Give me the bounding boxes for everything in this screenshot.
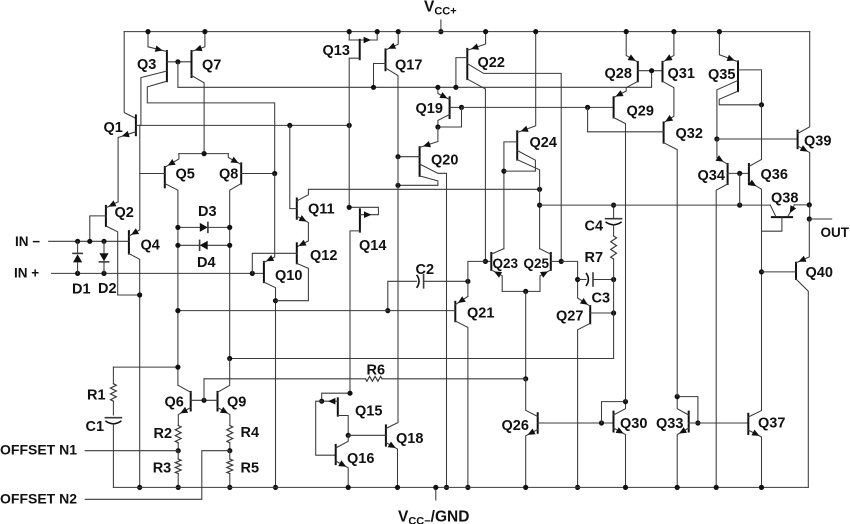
- svg-text:R7: R7: [585, 250, 604, 266]
- transistor Q20: [419, 147, 421, 176]
- Q34 emitter: [717, 139, 728, 164]
- svg-text:Q6: Q6: [165, 394, 184, 410]
- Q2 base wire: [90, 216, 106, 241]
- svg-text:R4: R4: [241, 425, 260, 441]
- wire Q22 collector 2 to Q21 emitter: [468, 261, 486, 296]
- Q23 emitter: [491, 270, 502, 292]
- Q38 base wire: [762, 217, 782, 231]
- Q36 collector: [749, 105, 762, 167]
- Q37 collector: [748, 272, 761, 417]
- base bias wire from Q3/Q7 base: [178, 62, 652, 88]
- transistor Q10: [263, 262, 265, 282]
- Q6 emitter: [178, 408, 190, 426]
- svg-text:Q31: Q31: [668, 66, 695, 82]
- transistor Q3: [166, 51, 168, 81]
- Q12 base wire to IN+: [252, 253, 296, 273]
- transistor Q9: [217, 392, 219, 411]
- Q11 collector wire: [297, 189, 540, 201]
- Q16 emitter: [336, 461, 349, 487]
- svg-text:Q32: Q32: [676, 126, 703, 142]
- svg-text:C4: C4: [585, 218, 604, 234]
- transistor Q14: [359, 209, 361, 231]
- Q8 collector: [230, 184, 242, 359]
- svg-text:Q34: Q34: [698, 168, 725, 184]
- Q2 collector: [106, 226, 140, 295]
- OFFSET N2 wire: [85, 451, 230, 500]
- svg-text:Q22: Q22: [478, 55, 505, 71]
- Q11 base wire: [290, 125, 297, 208]
- Q33 base wire to Q37: [689, 422, 749, 424]
- Q21 collector: [455, 321, 468, 487]
- svg-text:OFFSET N1: OFFSET N1: [0, 442, 77, 458]
- svg-text:Q20: Q20: [431, 152, 458, 168]
- Q1 emitter: [118, 132, 136, 202]
- Q14 emitter loop: [349, 207, 378, 214]
- transistor Q7: [191, 51, 193, 77]
- Q5 base wire: [140, 173, 165, 175]
- Q30 collector: [614, 402, 626, 415]
- transistor Q40: [795, 263, 797, 279]
- svg-text:Q23: Q23: [493, 256, 519, 271]
- svg-text:C1: C1: [86, 419, 105, 435]
- Q17 base wire: [374, 64, 386, 88]
- svg-text:Q40: Q40: [806, 265, 833, 281]
- wire Q1 collector to rail: [124, 32, 136, 119]
- svg-text:Q24: Q24: [530, 135, 557, 151]
- Q22 collector 1: [467, 64, 561, 262]
- svg-text:IN +: IN +: [14, 266, 39, 281]
- Q6 base wire: [191, 399, 218, 401]
- Q24 collector 1 tie to base: [504, 151, 536, 172]
- Q3 base wire to Q7: [167, 61, 192, 63]
- Q40 base wire: [762, 271, 797, 273]
- Q25 emitter: [540, 270, 551, 292]
- transistor Q22: [466, 49, 468, 79]
- Q9 collector: [218, 359, 230, 393]
- Q20 emitter: [420, 127, 438, 148]
- Q21 emitter: [455, 296, 468, 304]
- Q6 collector from Q5 collector column: [178, 385, 191, 392]
- svg-text:Q21: Q21: [467, 305, 494, 321]
- Q38 emitter: [788, 205, 795, 217]
- wire Q1 base line: [140, 124, 349, 126]
- transistor Q2: [105, 206, 107, 226]
- IN- wire: [49, 240, 129, 242]
- svg-text:R2: R2: [154, 426, 173, 442]
- Q20 collector 2 tie to base: [398, 176, 438, 185]
- transistor Q33: [688, 412, 690, 432]
- Q34 collector: [716, 184, 727, 487]
- IN+ wire to Q10 base: [52, 272, 264, 274]
- transistor Q16: [335, 445, 337, 464]
- Q35 collector 2 tie to base: [719, 91, 761, 105]
- svg-text:Q3: Q3: [137, 57, 156, 73]
- Q3 emitter: [148, 32, 167, 52]
- Q15 base wire to Q16: [316, 401, 336, 455]
- svg-text:D4: D4: [197, 255, 216, 271]
- Q35 emitter: [719, 32, 738, 62]
- Q38 collector: [770, 205, 776, 216]
- svg-text:Q29: Q29: [627, 104, 654, 120]
- node Q35 collector / Q39 base / Q34 emitter: [714, 136, 719, 141]
- diode D1: [77, 241, 79, 253]
- output node wire: [809, 205, 811, 219]
- OUT lead: [809, 218, 831, 220]
- wire R7 column to Q27 base and long bias wire: [230, 280, 614, 359]
- Q26 base wire: [538, 422, 614, 424]
- svg-text:Q26: Q26: [502, 418, 529, 434]
- svg-text:R1: R1: [87, 388, 106, 404]
- Q10 emitter wire from Q8 base: [264, 174, 275, 263]
- transistor Q18: [385, 425, 387, 445]
- Q29 collector: [614, 118, 626, 402]
- transistor Q23: [490, 253, 492, 270]
- Q8 emitter: [228, 154, 241, 165]
- transistor Q30: [613, 412, 615, 432]
- svg-text:Q37: Q37: [758, 415, 785, 431]
- svg-text:Q10: Q10: [275, 268, 302, 284]
- Q15 emitter: [322, 400, 338, 402]
- Q3 collector 2: [147, 81, 274, 173]
- Q11 emitter: [297, 216, 309, 247]
- svg-text:Q17: Q17: [395, 57, 422, 73]
- wire R6 bias line to Q6/Q9 bases: [203, 379, 205, 401]
- transistor Q34: [727, 164, 729, 184]
- transistor Q36: [748, 164, 750, 184]
- Q18 emitter: [386, 443, 398, 488]
- svg-text:Q25: Q25: [524, 256, 550, 271]
- Q14 collector: [350, 231, 360, 393]
- Q35 base wire: [738, 70, 762, 105]
- transistor Q29: [613, 97, 615, 117]
- wire compensation node: [540, 204, 771, 206]
- svg-text:Q27: Q27: [556, 309, 583, 325]
- svg-text:C3: C3: [592, 290, 611, 306]
- Q39 emitter: [798, 146, 810, 205]
- svg-text:Q9: Q9: [227, 394, 246, 410]
- svg-text:Q28: Q28: [605, 66, 632, 82]
- svg-text:Q33: Q33: [656, 416, 683, 432]
- Q26 collector: [526, 379, 538, 417]
- svg-text:Q12: Q12: [310, 248, 337, 264]
- Q24 base wire: [504, 142, 517, 249]
- Q15 emitter loop to Q14 column: [322, 393, 350, 401]
- C4 top wire: [613, 205, 615, 219]
- Q23 collector feed from Q24 base: [491, 249, 504, 255]
- Q19 emitter from bias rail: [438, 87, 450, 99]
- Q4 emitter wire from Q3 collector 1: [129, 125, 140, 236]
- emitter rail of Q5 Q8: [179, 153, 228, 155]
- svg-text:Q7: Q7: [202, 57, 221, 73]
- transistor Q1: [135, 115, 137, 135]
- transistor Q25: [550, 253, 552, 270]
- Q27 emitter wire from Q25 base node: [561, 261, 590, 306]
- transistor Q32: [663, 123, 665, 143]
- Q27 base wire: [590, 312, 613, 314]
- Q27 collector: [578, 323, 591, 487]
- transistor Q5: [164, 167, 166, 187]
- Q30 emitter: [614, 428, 626, 487]
- C2 left wire: [388, 281, 417, 310]
- Q22 emitter: [467, 32, 485, 51]
- C3 right wire: [593, 279, 614, 281]
- svg-text:Q4: Q4: [141, 237, 160, 253]
- Q2 emitter: [106, 202, 118, 208]
- C1 bottom wire to rail corner: [112, 424, 114, 488]
- Q28 collector to Q29 emitter: [614, 81, 638, 97]
- Q26 emitter: [526, 430, 538, 488]
- svg-text:Q13: Q13: [323, 43, 350, 59]
- VCC+ lead: [440, 20, 442, 32]
- Q22 base wire: [456, 58, 467, 88]
- Q23 base stub: [485, 260, 491, 262]
- svg-text:Q18: Q18: [396, 431, 423, 447]
- Q33 collector: [677, 397, 689, 415]
- Q25 base stub: [551, 260, 561, 262]
- diode D2: [103, 241, 105, 253]
- svg-text:Q39: Q39: [804, 133, 831, 149]
- Q32 base wire: [588, 107, 664, 131]
- transistor Q6: [190, 392, 192, 411]
- Q1 base stub: [136, 124, 140, 126]
- top rail VCC+: [124, 31, 810, 33]
- svg-text:Q16: Q16: [347, 451, 374, 467]
- Q3 collector 1 to Q1 base: [141, 71, 167, 125]
- Q17 emitter: [386, 32, 399, 50]
- svg-text:Q8: Q8: [219, 166, 238, 182]
- Q20 collector 1: [420, 164, 447, 487]
- svg-text:R3: R3: [153, 460, 172, 476]
- svg-text:Q38: Q38: [771, 190, 798, 206]
- svg-text:Q11: Q11: [308, 201, 335, 217]
- svg-text:OFFSET N2: OFFSET N2: [0, 491, 77, 507]
- Q19 collector diode loop: [438, 115, 450, 128]
- Q21 base wire: [178, 310, 455, 312]
- Q33 collector-base loop: [677, 397, 698, 423]
- OFFSET N1 wire: [85, 450, 178, 452]
- transistor Q24: [516, 131, 518, 159]
- C2 right wire: [424, 280, 468, 282]
- Q37 emitter: [748, 430, 761, 487]
- Q30 collector-base loop: [602, 402, 626, 423]
- transistor Q39: [797, 131, 799, 149]
- svg-text:Q35: Q35: [708, 67, 735, 83]
- svg-text:D3: D3: [198, 204, 217, 220]
- Q35 collector 1: [717, 80, 738, 139]
- Q31 emitter: [663, 32, 674, 62]
- svg-text:OUT: OUT: [821, 225, 850, 240]
- svg-text:Q19: Q19: [416, 101, 443, 117]
- Q4 collector: [129, 254, 140, 488]
- Q28/Q31 base wire: [638, 70, 663, 72]
- transistor Q4: [128, 231, 130, 254]
- Q7 collector: [192, 76, 205, 154]
- wire Q23/Q25 emitter junction: [502, 290, 540, 292]
- Q32 collector: [664, 143, 678, 397]
- transistor Q17: [385, 49, 387, 70]
- Q33 emitter: [677, 428, 689, 487]
- Q8 base wire: [241, 173, 275, 175]
- transistor Q21: [454, 302, 456, 321]
- Q18 collector: [386, 420, 398, 429]
- svg-text:R5: R5: [241, 460, 260, 476]
- Q19 base wire: [450, 106, 462, 108]
- Q16 collector: [336, 435, 349, 448]
- Q10 collector: [264, 282, 276, 487]
- bottom rail VCC-: [113, 486, 808, 488]
- transistor Q28: [637, 62, 639, 81]
- svg-text:Q30: Q30: [620, 416, 647, 432]
- transistor Q27: [589, 306, 591, 323]
- Q28 emitter: [626, 32, 638, 62]
- Q22 collector 2: [467, 79, 485, 261]
- Q31 collector to Q32 emitter: [663, 81, 674, 122]
- Q39 collector: [798, 32, 810, 134]
- diode D3: [178, 226, 230, 228]
- transistor Q12: [296, 243, 298, 263]
- transistor Q11: [296, 199, 298, 219]
- transistor Q37: [747, 414, 749, 434]
- svg-text:D2: D2: [98, 281, 117, 297]
- Q5 collector: [165, 184, 178, 386]
- svg-text:IN −: IN −: [15, 234, 40, 249]
- Q15 collector: [338, 416, 348, 436]
- Q36 emitter: [749, 182, 762, 272]
- transistor Q15: [337, 398, 339, 415]
- VCC- / GND label: [435, 487, 437, 500]
- Q20 base wire: [398, 156, 420, 158]
- Q24 emitter: [517, 32, 536, 133]
- Q17 collector column: [386, 68, 399, 157]
- transistor Q8: [240, 163, 242, 183]
- transistor Q19: [449, 97, 451, 118]
- svg-text:Q15: Q15: [355, 403, 382, 419]
- svg-text:C2: C2: [416, 262, 435, 278]
- Q40 emitter: [796, 219, 809, 263]
- Q34/Q36 base wire: [728, 172, 749, 174]
- svg-text:Q2: Q2: [115, 205, 134, 221]
- svg-text:D1: D1: [72, 281, 91, 297]
- wire R1 top: [113, 366, 177, 368]
- diode D4: [178, 244, 230, 246]
- Q9 emitter: [218, 408, 230, 426]
- C3 left wire: [578, 279, 586, 281]
- Q12 collector: [276, 263, 309, 300]
- Q34/Q36 base drop to compensation node: [739, 173, 741, 205]
- Q25 collector feed: [540, 249, 551, 255]
- Q24 collector 2: [517, 160, 539, 249]
- svg-text:Q36: Q36: [761, 167, 788, 183]
- transistor Q35: [737, 61, 739, 91]
- wire Q19/Q29 base line: [462, 106, 614, 108]
- svg-text:Q1: Q1: [104, 120, 123, 136]
- Q7 emitter: [192, 32, 205, 52]
- Q40 collector: [796, 279, 808, 487]
- transistor Q31: [662, 62, 664, 81]
- wire Q13 collector column to Q14: [348, 125, 350, 207]
- svg-text:Q5: Q5: [176, 166, 195, 182]
- transistor Q26: [537, 413, 539, 433]
- Q5 emitter: [165, 154, 179, 168]
- Q18 base wire: [348, 434, 386, 436]
- Q17/Q20/Q18 column: [397, 157, 399, 420]
- svg-text:Q14: Q14: [359, 238, 386, 254]
- wire Q39 base: [717, 138, 798, 140]
